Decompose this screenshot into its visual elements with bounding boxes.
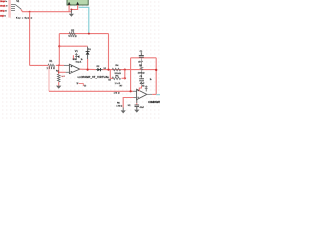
ground 2 stem [119, 108, 128, 111]
svg-text:OPAMP_3T_VIRTUAL: OPAMP_3T_VIRTUAL [81, 76, 110, 79]
bus band [8, 0, 11, 18]
wire to R1 [30, 60, 48, 71]
node A dot [29, 11, 31, 13]
wire + input row opamp2 [45, 65, 54, 91]
op-amp U2 [137, 89, 147, 99]
svg-text:Key = Space: Key = Space [16, 18, 33, 20]
node C dot (cyan junction) [88, 33, 90, 35]
- input wire opamp2 [123, 98, 133, 108]
wiper wire to - input [59, 67, 66, 78]
output wire [80, 64, 96, 75]
svg-text:100mVpk: 100mVpk [0, 1, 5, 3]
svg-text:10mVpk: 10mVpk [0, 16, 5, 18]
switch pole [15, 4, 21, 9]
ground [69, 14, 74, 17]
+ stub opamp2 [133, 87, 137, 96]
vert x130 [125, 58, 136, 92]
wire switch to node A [21, 9, 72, 11]
switch S1 stubs [11, 4, 21, 10]
svg-text:47nF: 47nF [138, 62, 143, 64]
op-amp U1 [69, 64, 79, 73]
ground 2 [121, 110, 126, 113]
feedback wire [59, 41, 87, 52]
wire R3 row [59, 28, 108, 39]
cyan out [156, 90, 160, 100]
svg-text:50%: 50% [73, 59, 77, 61]
resistor R6 vertical column [138, 58, 145, 79]
wire R1 to opamp [56, 60, 64, 71]
diode D1 [86, 47, 90, 70]
node K dot [130, 90, 132, 92]
node G dot [107, 69, 109, 71]
pin 2 arrow [76, 2, 79, 5]
node B dot [70, 9, 72, 11]
svg-text:1MΩ: 1MΩ [116, 105, 122, 107]
wire right col down [103, 34, 114, 70]
R5 row wire [122, 73, 125, 84]
node J dot [155, 69, 157, 71]
potentiometer V1 above opamp [73, 50, 83, 63]
wire vert x59 [54, 34, 65, 66]
svg-text:1kΩ: 1kΩ [115, 83, 121, 85]
resistor R4 [112, 68, 120, 71]
+ input stub [64, 61, 69, 70]
svg-text:1k: 1k [150, 79, 152, 81]
source label text rows (left edge) [0, 1, 8, 18]
pot V2 [142, 86, 148, 92]
svg-text:200kΩ: 200kΩ [138, 73, 145, 75]
wire D2 to right [103, 64, 157, 75]
svg-text:COMPARATOR_V: COMPARATOR_V [148, 101, 160, 104]
resistor R3 [69, 32, 75, 35]
capacitor C1 [139, 52, 144, 57]
svg-text:1MΩ: 1MΩ [114, 92, 120, 94]
svg-text:47nF: 47nF [140, 83, 145, 85]
pin2 wire [71, 5, 77, 12]
wire node A down [24, 12, 35, 66]
node R2 tap dot [58, 72, 60, 74]
output wire opamp2 [147, 90, 153, 99]
svg-text:50kΩ: 50kΩ [115, 73, 122, 75]
svg-text:1k: 1k [81, 59, 83, 61]
potentiometer R2 [56, 65, 61, 89]
circuit schematic canvas [0, 0, 160, 120]
node I dot [124, 77, 126, 79]
svg-text:100mVpk: 100mVpk [0, 11, 5, 13]
node D dot [58, 45, 60, 47]
diode D2 [96, 68, 103, 71]
svg-text:1kΩ: 1kΩ [61, 76, 66, 78]
green box X1 [67, 0, 88, 5]
capacitor C3 [139, 76, 145, 92]
vert between rows [119, 70, 130, 79]
capacitor C2 + ground [134, 99, 139, 112]
svg-text:V2: V2 [142, 86, 144, 88]
node H dot [124, 69, 126, 71]
node F dot [87, 69, 89, 71]
pin 1 arrow [68, 2, 71, 5]
svg-text:100mVpk: 100mVpk [0, 6, 6, 8]
pin1 wire [64, 5, 75, 12]
cyan wire from box [79, 7, 89, 33]
marks on wire [76, 82, 78, 85]
resistor R5 [112, 77, 120, 80]
resistor R1 [48, 64, 55, 67]
ground stem [67, 10, 76, 14]
vert x156 [151, 58, 162, 95]
wire row2 branch [110, 70, 113, 79]
top right wire [131, 52, 157, 63]
